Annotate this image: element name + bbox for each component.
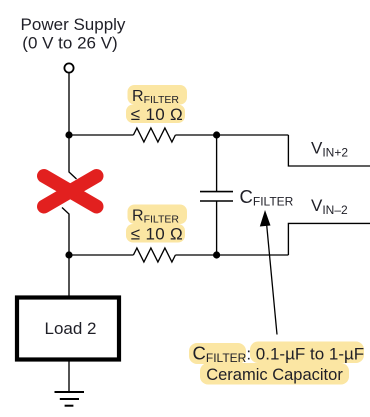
- wire top rail right segment: [175, 134, 288, 136]
- svg-text:≤ 10 Ω: ≤ 10 Ω: [131, 225, 183, 244]
- node junction top-left: [65, 131, 72, 138]
- node junction top-center: [213, 131, 220, 138]
- red X deletion mark stroke 1: [44, 176, 97, 207]
- highlight behind CFILTER: (note): [189, 343, 246, 364]
- svg-text:Load 2: Load 2: [45, 319, 97, 338]
- node junction bottom-center: [213, 251, 220, 258]
- capacitor C_FILTER bottom plate: [200, 200, 233, 202]
- load block Load 2: [17, 298, 119, 360]
- highlight behind Ceramic Capacitor (note): [200, 363, 349, 385]
- capacitor C_FILTER top plate: [200, 191, 233, 193]
- highlight behind <= 10 ohm (top): [126, 105, 185, 124]
- node junction bottom-left: [65, 251, 72, 258]
- wire step down to VIN+2: [288, 135, 370, 166]
- highlight behind RFILTER (top): [128, 85, 188, 105]
- resistor R_FILTER (bottom): [133, 248, 175, 262]
- resistor R_FILTER (top): [133, 128, 175, 142]
- wire from bottom rail to Load 2: [68, 255, 70, 296]
- svg-text:Ceramic Capacitor: Ceramic Capacitor: [206, 366, 343, 384]
- wire from terminal to top rail: [68, 73, 70, 135]
- broken wire lower piece (left branch): [62, 208, 69, 256]
- svg-text:Power Supply: Power Supply: [21, 15, 126, 34]
- wire bottom rail left segment: [69, 254, 133, 256]
- red X deletion mark stroke 2: [44, 176, 97, 207]
- wire capacitor top lead: [216, 135, 218, 192]
- wire from Load 2 to ground: [68, 362, 70, 393]
- terminal circle (power supply input): [64, 63, 73, 72]
- wire bottom rail right segment: [175, 254, 288, 256]
- wire capacitor bottom lead: [216, 201, 218, 255]
- wire step up to VIN-2: [288, 223, 370, 255]
- callout arrow pointing to capacitor: [260, 210, 277, 335]
- ground symbol: [55, 392, 85, 406]
- wire top rail left segment: [69, 134, 133, 136]
- broken wire upper piece (left branch): [69, 135, 77, 179]
- highlight behind RFILTER (bottom): [128, 205, 188, 225]
- highlight behind <= 10 ohm (bottom): [126, 224, 185, 243]
- highlight behind 0.1-uF to 1-uF (note): [250, 342, 364, 364]
- svg-text:≤ 10 Ω: ≤ 10 Ω: [131, 105, 183, 124]
- svg-text:(0 V to 26 V): (0 V to 26 V): [22, 34, 117, 53]
